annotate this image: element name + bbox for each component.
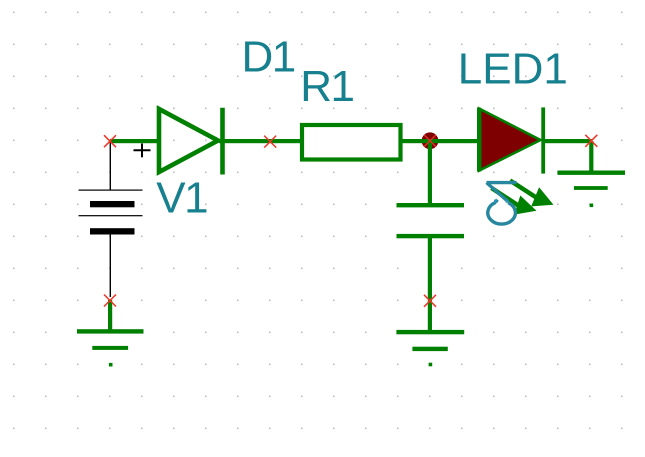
wire: capacitor bottom to middle ground (428, 236, 432, 332)
wire: battery plus to diode anode (110, 139, 158, 143)
wire: resistor right to LED anode (400, 139, 480, 143)
cursor glyph over LED (487, 183, 517, 225)
pin-end x battery plus (104, 135, 116, 147)
ground middle (396, 330, 464, 366)
svg-text:V1: V1 (156, 173, 207, 222)
LED LED1 (477, 107, 545, 173)
LED1 emission arrow upper (510, 181, 554, 207)
pin-end x on junction (424, 135, 436, 147)
resistor R1 (302, 125, 401, 160)
battery V1 (79, 142, 143, 297)
svg-text:LED1: LED1 (458, 44, 568, 93)
wire: LED cathode to right pin end (544, 139, 592, 143)
wire: junction down to capacitor top (428, 141, 432, 204)
ground left (77, 329, 144, 366)
svg-text:R1: R1 (300, 62, 353, 111)
diode D1 (159, 108, 223, 175)
battery plus sign (134, 144, 151, 158)
capacitor (397, 203, 465, 238)
svg-text:D1: D1 (242, 32, 295, 81)
LED1 emission arrow lower (492, 188, 537, 215)
pin-end x capacitor bottom (424, 295, 436, 307)
pin-end x diode cathode (264, 136, 276, 148)
pin-end x battery minus (104, 295, 116, 307)
wire: diode cathode to resistor left (219, 139, 302, 143)
junction node (422, 132, 439, 149)
cursor highlight tips (494, 200, 508, 203)
pin-end x right (585, 135, 597, 147)
wire: right pin down to right ground (589, 141, 593, 172)
ground right (558, 171, 626, 208)
wire: battery minus to left ground (108, 300, 112, 331)
